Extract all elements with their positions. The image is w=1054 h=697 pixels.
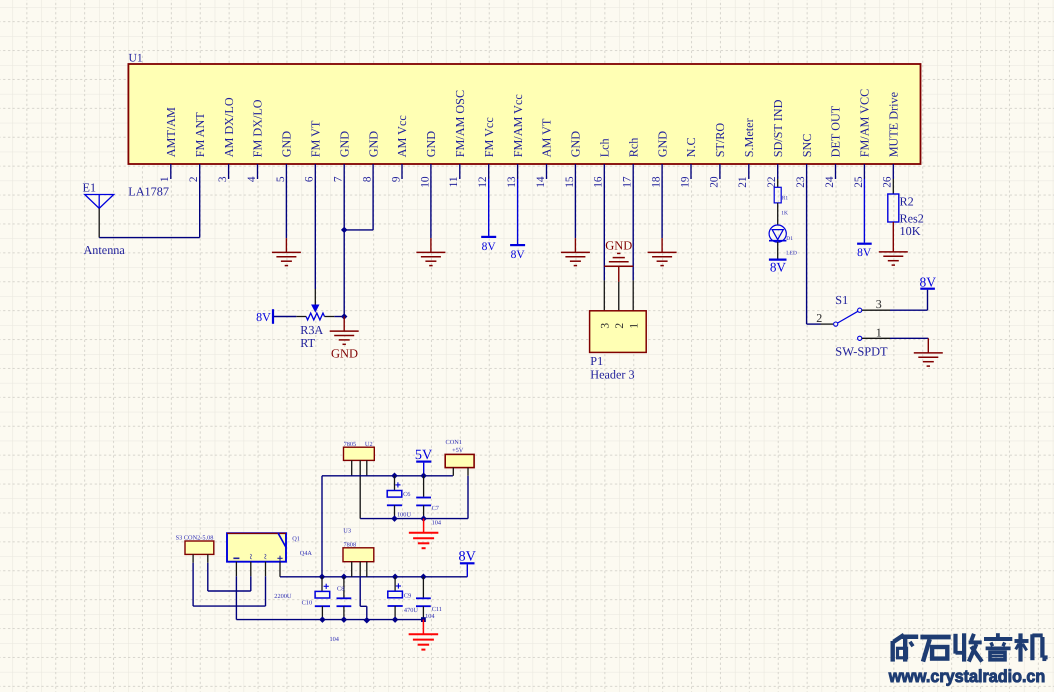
U1 pin 23 stub <box>806 164 808 179</box>
U1 pin 24 number <box>824 176 836 188</box>
wire bus drop to bridge <box>321 476 323 577</box>
svg-text:FM DX/LO: FM DX/LO <box>251 99 265 157</box>
svg-text:24: 24 <box>824 176 836 188</box>
svg-text:1: 1 <box>159 177 171 183</box>
svg-text:FM ANT: FM ANT <box>193 112 207 158</box>
svg-text:FM VT: FM VT <box>309 120 323 157</box>
resistor R2 <box>888 194 899 222</box>
label Antenna <box>84 243 126 257</box>
wire pin8 down <box>372 179 374 230</box>
svg-text:8V: 8V <box>482 241 497 253</box>
wire S1 pin1 to ground <box>890 337 928 339</box>
U1 pin 11 stub <box>459 164 461 179</box>
capacitor C11 <box>416 598 431 606</box>
C10 bottom lead <box>321 606 323 619</box>
svg-text:100U: 100U <box>397 512 411 519</box>
wire Q1 ac1 <box>250 576 252 591</box>
U1 pin 5 stub <box>285 164 287 179</box>
wire 8V-gnd bus <box>236 619 423 621</box>
voltage regulator U2 7805 body <box>344 447 375 460</box>
label Res2 <box>900 211 924 225</box>
S1 pin number 2 <box>816 311 822 325</box>
svg-text:S.Meter: S.Meter <box>742 118 756 157</box>
wire pin23 (SNC) down <box>806 179 808 324</box>
junction gndbus/U3gnd <box>364 617 371 624</box>
svg-text:P1: P1 <box>590 354 603 368</box>
svg-text:LA1787: LA1787 <box>128 185 169 199</box>
Q1 pin ~1 lead <box>250 562 252 577</box>
U1 pin 15 name GND <box>569 131 583 158</box>
svg-text:2: 2 <box>614 323 626 329</box>
svg-text:GND: GND <box>280 131 294 158</box>
U1 pin 16 stub <box>603 164 605 179</box>
wire antenna to pin2 vertical <box>199 179 201 238</box>
svg-text:SW-SPDT: SW-SPDT <box>835 345 888 359</box>
label +5V <box>452 447 464 454</box>
label 7808 <box>344 541 357 548</box>
wire pin16 (Lch) down <box>603 179 605 280</box>
label C7 <box>432 505 439 512</box>
svg-text:Lch: Lch <box>598 138 612 157</box>
label LED <box>786 251 797 257</box>
S1 pin number 3 <box>876 297 882 311</box>
svg-text:S1: S1 <box>835 293 848 307</box>
U1 pin 21 name S.Meter <box>742 118 756 157</box>
svg-text:FM Vcc: FM Vcc <box>482 117 496 158</box>
R1 top lead <box>777 179 779 187</box>
U1 pin 18 stub <box>661 164 663 179</box>
svg-text:4: 4 <box>246 176 258 182</box>
label R2 <box>900 195 914 209</box>
wire pin25 to 8V <box>863 179 865 243</box>
U1 pin 14 name AM VT <box>540 118 554 157</box>
wire R3A right to pin7 node <box>334 316 344 318</box>
watermark logo text <box>888 633 1046 686</box>
U1 pin 6 number <box>304 176 316 182</box>
U1 pin 17 number <box>622 176 634 188</box>
U1 pin 3 stub <box>228 164 230 179</box>
potentiometer R3A body <box>306 313 324 320</box>
svg-text:FM/AM VCC: FM/AM VCC <box>858 89 872 158</box>
svg-text:AMT/AM: AMT/AM <box>164 107 178 157</box>
svg-text:Q4A: Q4A <box>300 550 313 557</box>
svg-text:R1: R1 <box>782 196 789 202</box>
label RT <box>300 336 315 350</box>
C6 bottom lead <box>394 505 396 518</box>
label E1 <box>83 180 97 194</box>
red ground at C7 <box>409 519 439 549</box>
U1 pin 3 number <box>217 176 229 182</box>
svg-text:8V: 8V <box>770 260 787 275</box>
svg-text:CON1: CON1 <box>446 439 462 446</box>
svg-text:23: 23 <box>795 176 807 188</box>
junction bridge/C10/drop <box>319 574 326 581</box>
U3 pin3 lead <box>366 562 368 577</box>
svg-text:8V: 8V <box>256 310 271 324</box>
P1 pin number 3 <box>600 323 612 329</box>
label GND at P1 <box>605 238 632 252</box>
CON1 pin1 lead <box>452 468 454 476</box>
P1 pin1 lead <box>632 280 634 310</box>
U1 pin 23 name SNC <box>800 134 814 158</box>
capacitor C10 (polarized) <box>315 584 330 607</box>
label C6 <box>403 491 410 498</box>
wire U3 pin2 to gnd bus (jog) <box>360 576 367 620</box>
C9 top lead <box>394 577 396 591</box>
U1 pin 1 stub <box>170 164 172 179</box>
inverted ground symbol at P1 pin2 <box>604 253 633 282</box>
label S1 <box>835 293 848 307</box>
U1 pin 2 name FM ANT <box>193 112 207 158</box>
wire R1 to LED <box>777 203 779 225</box>
svg-text:17: 17 <box>622 176 634 188</box>
U3 pin1 lead <box>351 562 353 577</box>
U1 pin 10 stub <box>430 164 432 179</box>
U1 pin 17 stub <box>632 164 634 179</box>
label CON1 <box>446 439 462 446</box>
svg-text:C10: C10 <box>302 599 313 606</box>
U1 pin 12 name FM Vcc <box>482 117 496 158</box>
C10 top lead <box>321 577 323 592</box>
svg-text:8V: 8V <box>511 249 526 261</box>
C7 bottom lead <box>423 505 425 518</box>
U1 pin 8 name GND <box>366 131 380 158</box>
LED D1 <box>769 225 786 242</box>
Q1 pin - lead <box>235 562 237 577</box>
U1 pin 17 name Rch <box>626 138 640 158</box>
LED bottom lead <box>777 242 779 259</box>
label P1 <box>590 354 603 368</box>
junction gndbus/C7 <box>420 515 427 522</box>
U1 pin 22 number <box>766 176 778 188</box>
U1 pin 2 number <box>188 176 200 182</box>
svg-text:GND: GND <box>337 131 351 158</box>
connector P1 header body <box>590 311 647 353</box>
power 5V symbol <box>415 447 433 476</box>
voltage regulator U3 7808 body <box>343 548 374 562</box>
svg-text:13: 13 <box>506 176 518 188</box>
svg-text:C7: C7 <box>432 505 439 512</box>
junction gndbus/C6 <box>391 515 398 522</box>
U2 pin1 lead <box>351 460 353 475</box>
svg-text:1K: 1K <box>781 210 788 216</box>
svg-text:SNC: SNC <box>800 134 814 158</box>
U1 pin 7 number <box>333 176 345 182</box>
U1 pin 20 stub <box>719 164 721 179</box>
svg-text:AM Vcc: AM Vcc <box>395 115 409 158</box>
C8 top lead <box>343 577 345 598</box>
connector CON1 body <box>445 454 474 467</box>
wire pin12 to 8V <box>488 179 490 236</box>
wire to S1 common <box>807 323 821 325</box>
U1 pin 5 name GND <box>280 131 294 158</box>
svg-text:GND: GND <box>569 131 583 158</box>
wire 5V bus <box>322 475 453 477</box>
capacitor C7 <box>416 498 431 506</box>
power 8V at R3A (vertical bar) <box>256 309 273 324</box>
svg-text:U2: U2 <box>365 441 373 448</box>
U1 pin 25 name FM/AM VCC <box>858 89 872 158</box>
svg-text:+5V: +5V <box>452 447 464 454</box>
power 8V at pin25 <box>857 244 872 260</box>
label 104 (C11) <box>425 613 435 620</box>
connector S3 body <box>185 541 214 554</box>
svg-text:3: 3 <box>600 323 612 329</box>
junction 8Vbus/C9 <box>392 574 399 581</box>
junction R3A node <box>341 313 348 320</box>
U1 pin 11 name FM/AM OSC <box>453 90 467 157</box>
wire CON1 pin2 to gnd bus <box>467 476 469 519</box>
svg-text:470U: 470U <box>404 607 418 614</box>
antenna E1 pin <box>98 208 100 237</box>
U1 pin 9 name AM Vcc <box>395 115 409 158</box>
U1 pin 2 stub <box>199 164 201 179</box>
U1 designator label <box>129 52 143 65</box>
U1 pin 14 number <box>535 176 547 188</box>
U1 pin 24 stub <box>835 164 837 179</box>
ground at S1 <box>914 338 943 366</box>
svg-text:1: 1 <box>628 323 640 329</box>
svg-text:8V: 8V <box>459 549 477 565</box>
U1 pin 6 name FM VT <box>309 120 323 157</box>
svg-text:7805: 7805 <box>344 441 357 448</box>
power 8V below LED <box>769 260 787 275</box>
svg-text:19: 19 <box>679 176 691 188</box>
S1 pin 2 lead <box>821 323 834 325</box>
U1 pin 12 number <box>477 176 489 188</box>
junction gndbus/C10 <box>319 616 326 623</box>
svg-text:U1: U1 <box>129 52 143 65</box>
U1 pin 25 number <box>853 176 865 188</box>
watermark url <box>888 666 1045 686</box>
label C10 <box>302 599 313 606</box>
svg-text:GND: GND <box>366 131 380 158</box>
svg-text:SD/ST IND: SD/ST IND <box>771 99 785 157</box>
junction bus/5V <box>420 473 427 480</box>
wire 5V-gnd bus <box>360 518 468 520</box>
svg-text:21: 21 <box>737 177 749 188</box>
svg-text:D1: D1 <box>786 236 793 242</box>
svg-text:Antenna: Antenna <box>84 243 126 257</box>
CON1 pin2 lead <box>467 468 469 476</box>
ground at pin18 <box>648 238 677 266</box>
U1 pin 7 stub <box>343 164 345 179</box>
U1 pin 19 stub <box>690 164 692 179</box>
U1 pin 19 name N.C <box>684 137 698 157</box>
U1 pin 1 name AMT/AM <box>164 107 178 157</box>
label 470U <box>404 607 418 614</box>
U1 pin 26 stub <box>892 164 894 179</box>
U1 pin 23 number <box>795 176 807 188</box>
wire pin13 to 8V <box>517 179 519 244</box>
S1 pin number 1 <box>876 325 882 339</box>
R3A left pin <box>296 316 306 318</box>
svg-text:7: 7 <box>333 176 345 182</box>
label 2200U <box>274 593 292 600</box>
svg-text:104: 104 <box>330 636 340 643</box>
U1 pin 3 name AM DX/LO <box>222 97 236 157</box>
Q1 terminal labels <box>233 554 282 561</box>
C7 top lead <box>423 476 425 497</box>
wire Q1 minus to gnd bus <box>235 576 237 619</box>
U1 pin 24 name DET OUT <box>829 105 843 157</box>
U1 pin 1 number <box>159 177 171 183</box>
label U3 <box>343 528 351 535</box>
junction gndbus/red ground <box>421 617 426 622</box>
U1 pin 15 number <box>564 176 576 188</box>
wire R3A left to 8V <box>273 316 296 318</box>
svg-text:8V: 8V <box>920 274 937 289</box>
wire Q1 plus to 8V bus <box>280 576 322 578</box>
label R1 <box>782 196 789 202</box>
U1 pin 9 stub <box>401 164 403 179</box>
svg-text:Rch: Rch <box>626 138 640 158</box>
svg-text:22: 22 <box>766 176 778 188</box>
junction 8Vbus/C8 <box>341 574 348 581</box>
U1 pin 26 name MUTE Drive <box>887 92 901 157</box>
label C8 <box>337 585 344 592</box>
capacitor C6 (polarized) <box>387 482 402 505</box>
svg-text:5: 5 <box>275 176 287 182</box>
S3 pin2 lead <box>207 554 209 562</box>
svg-text:AM DX/LO: AM DX/LO <box>222 97 236 157</box>
label 104 (C8) <box>330 636 340 643</box>
label 1K <box>781 210 788 216</box>
svg-text:Q1: Q1 <box>292 536 300 543</box>
S1 pin 3 lead <box>862 309 890 311</box>
U1 pin 8 number <box>362 176 374 182</box>
ground at pin10 <box>416 238 445 266</box>
svg-text:2200U: 2200U <box>274 593 292 600</box>
label Q1 <box>292 536 300 543</box>
svg-text:C6: C6 <box>403 491 410 498</box>
U1 pin 13 number <box>506 176 518 188</box>
svg-text:2: 2 <box>816 311 822 325</box>
svg-text:15: 15 <box>564 176 576 188</box>
ground at R2 <box>879 222 908 265</box>
svg-text:5V: 5V <box>415 447 433 463</box>
svg-text:DET OUT: DET OUT <box>829 105 843 157</box>
wire pin7 down <box>343 179 345 317</box>
capacitor C8 <box>337 598 352 606</box>
U1 pin 6 stub <box>314 164 316 179</box>
svg-text:E1: E1 <box>83 180 97 194</box>
capacitor C9 (polarized) <box>388 583 403 606</box>
S1 pin 1 lead <box>862 337 890 339</box>
label R3A <box>300 323 323 337</box>
P1 pin3 lead <box>603 280 605 310</box>
U1 pin 21 number <box>737 177 749 188</box>
junction 8Vbus/C11 <box>420 574 427 581</box>
U2 pin2 lead <box>359 460 361 518</box>
U1 pin 8 stub <box>372 164 374 179</box>
wire 8V bus <box>322 576 467 578</box>
junction pin7/pin8 <box>341 227 348 234</box>
svg-text:www.crystalradio.cn: www.crystalradio.cn <box>888 666 1045 686</box>
R3A right pin <box>325 316 335 318</box>
U1 pin 13 stub <box>517 164 519 179</box>
U1 pin 25 stub <box>863 164 865 179</box>
svg-text:GND: GND <box>331 347 358 361</box>
antenna E1 symbol <box>85 195 114 209</box>
svg-text:6: 6 <box>304 176 316 182</box>
svg-text:U3: U3 <box>343 528 351 535</box>
U1 pin 26 number <box>882 176 894 188</box>
label U2 <box>365 441 373 448</box>
U1 pin 4 stub <box>257 164 259 179</box>
wire pin18 down <box>661 179 663 238</box>
U1 part name LA1787 <box>128 185 169 199</box>
label 7805 <box>344 441 357 448</box>
U1 pin 4 name FM DX/LO <box>251 99 265 157</box>
U1 pin 13 name FM/AM Vcc <box>511 94 525 158</box>
U1 pin 10 number <box>419 176 431 188</box>
U1 pin 9 number <box>390 176 402 182</box>
svg-text:~: ~ <box>245 554 257 560</box>
U1 pin 22 stub <box>777 164 779 179</box>
label Q4A <box>300 550 313 557</box>
power 8V at S1 <box>920 274 937 289</box>
U1 pin 22 name SD/ST IND <box>771 99 785 157</box>
U1 pin 10 name GND <box>424 131 438 158</box>
svg-text:9: 9 <box>390 176 402 182</box>
label 10K <box>900 224 921 238</box>
svg-text:GND: GND <box>655 131 669 158</box>
svg-text:12: 12 <box>477 176 489 188</box>
svg-text:C8: C8 <box>337 585 344 592</box>
svg-text:FM/AM Vcc: FM/AM Vcc <box>511 94 525 158</box>
bridge rectifier Q1 body <box>227 533 286 562</box>
ground at pin5 <box>272 238 301 266</box>
power 8V symbol (bottom) <box>459 549 477 577</box>
U1 pin 15 stub <box>574 164 576 179</box>
svg-text:8V: 8V <box>857 247 872 259</box>
red ground at C11 <box>409 620 439 650</box>
svg-text:10K: 10K <box>900 224 921 238</box>
P1 pin number 1 <box>628 323 640 329</box>
svg-text:ST/RO: ST/RO <box>713 123 727 158</box>
U1 pin 18 name GND <box>655 131 669 158</box>
svg-text:104: 104 <box>432 520 442 527</box>
label S3 CON2-5.08 <box>176 535 214 542</box>
Q1 pin ~2 lead <box>265 562 267 577</box>
svg-text:C9: C9 <box>404 592 411 599</box>
svg-text:~: ~ <box>260 554 272 560</box>
svg-text:2: 2 <box>188 176 200 182</box>
svg-text:S3 CON2-5.08: S3 CON2-5.08 <box>176 535 214 542</box>
label D1 <box>786 236 793 242</box>
wire pin15 down <box>574 179 576 238</box>
label Header 3 <box>590 368 634 382</box>
svg-text:14: 14 <box>535 176 547 188</box>
P1 pin2 lead <box>618 282 620 311</box>
wire pin17 (Rch) down <box>632 179 634 280</box>
svg-text:25: 25 <box>853 176 865 188</box>
wire antenna to pin2 horizontal <box>99 237 200 239</box>
S3 pin1 lead <box>192 554 194 562</box>
svg-text:1: 1 <box>876 325 882 339</box>
R3A wiper arrow <box>311 305 319 313</box>
C9 bottom lead <box>394 606 396 620</box>
svg-text:AM VT: AM VT <box>540 118 554 157</box>
label 100U <box>397 512 411 519</box>
svg-text:N.C: N.C <box>684 137 698 157</box>
C11 top lead <box>422 577 424 598</box>
wire pin5 down <box>285 179 287 238</box>
svg-text:20: 20 <box>708 176 720 188</box>
U2 pin3 lead <box>366 460 368 475</box>
U1 pin 5 number <box>275 176 287 182</box>
